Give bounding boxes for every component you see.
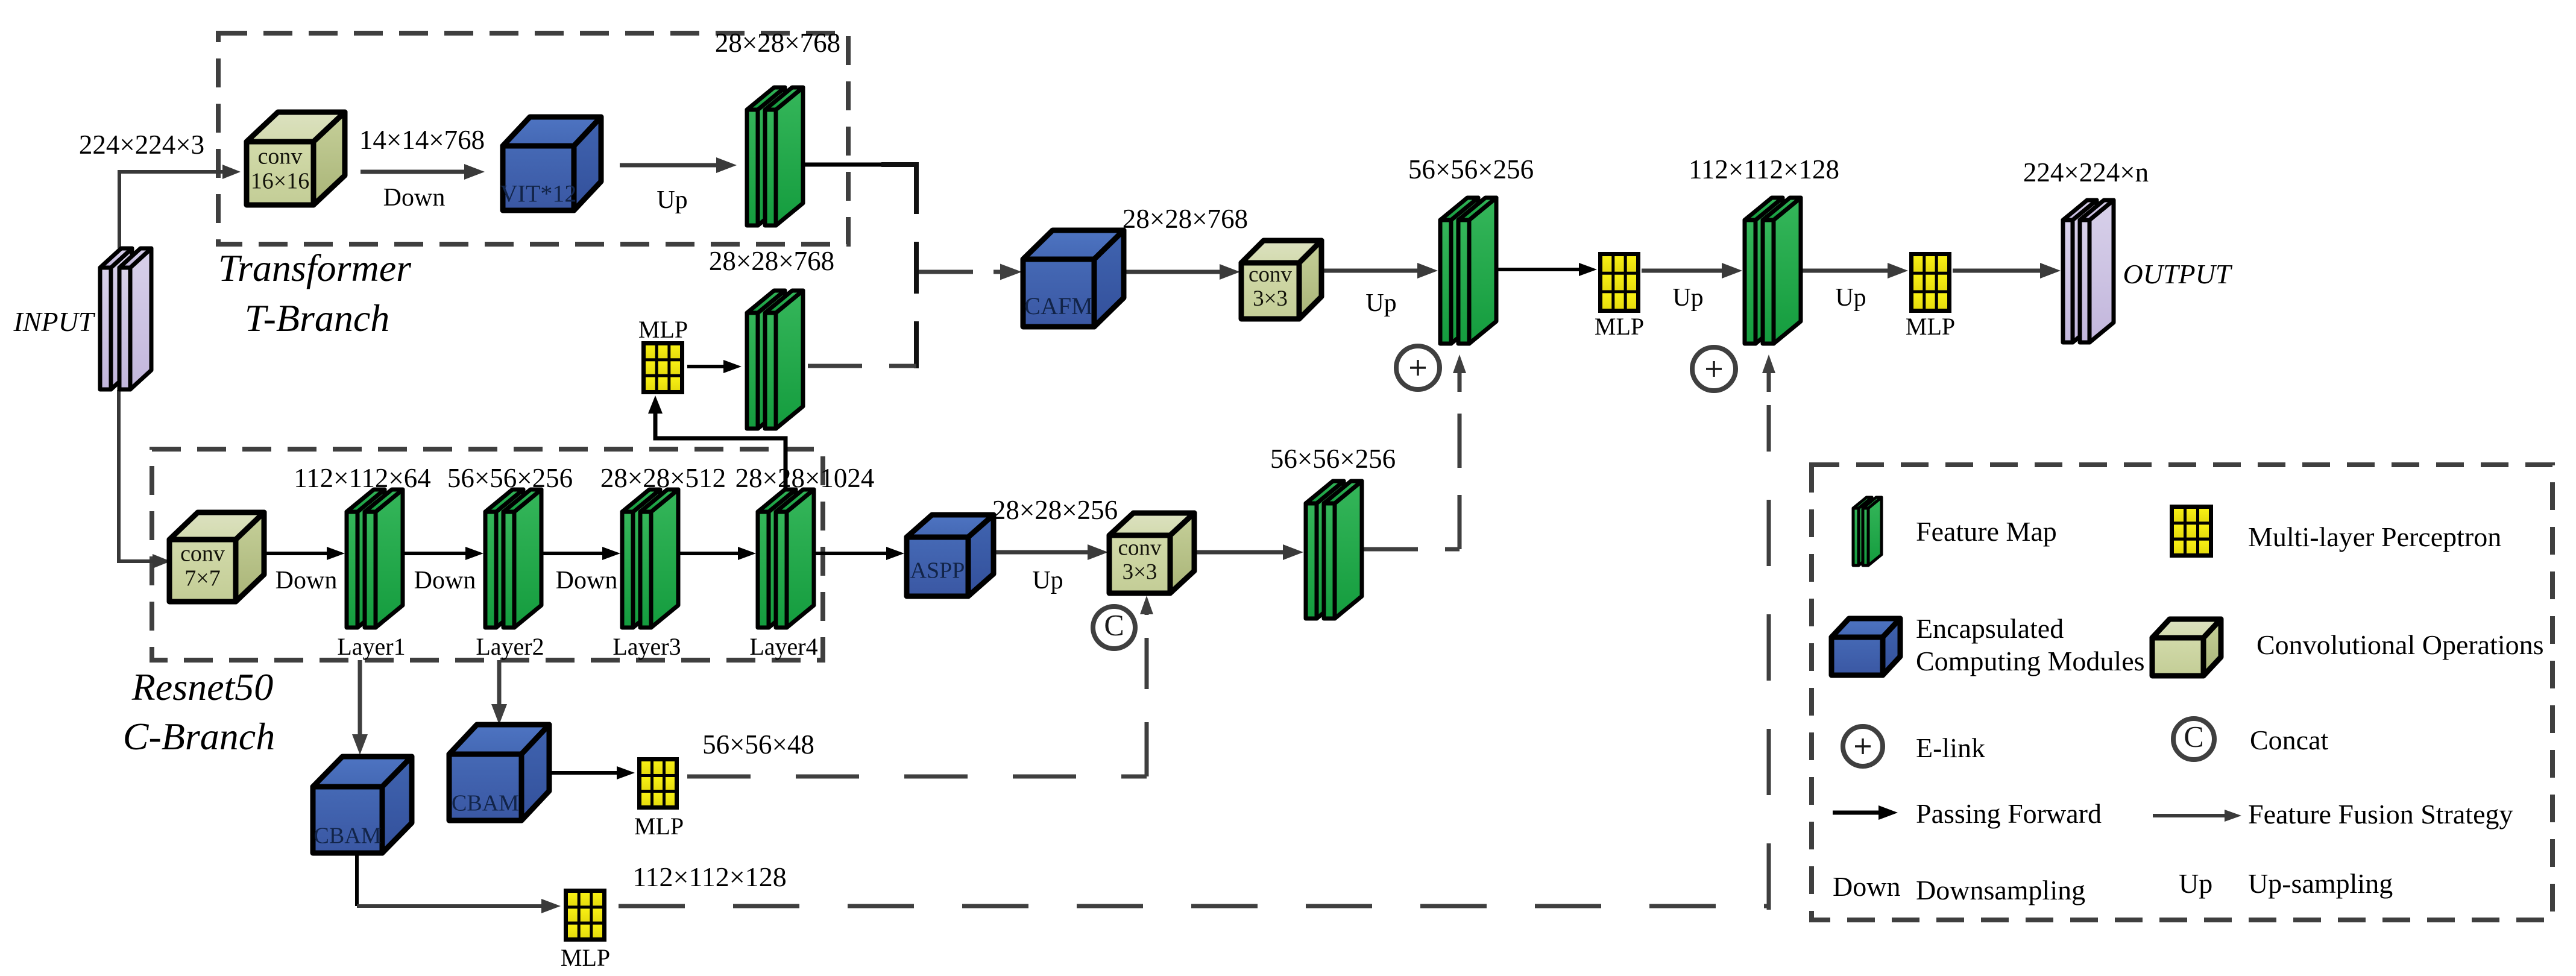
svg-text:14×14×768: 14×14×768: [359, 125, 485, 155]
svg-text:112×112×128: 112×112×128: [1689, 154, 1839, 184]
svg-text:Computing Modules: Computing Modules: [1916, 646, 2145, 676]
svg-text:28×28×256: 28×28×256: [992, 495, 1118, 525]
svg-text:VIT*12: VIT*12: [500, 180, 577, 207]
svg-text:Up: Up: [1835, 284, 1866, 312]
svg-text:Feature Fusion Strategy: Feature Fusion Strategy: [2248, 799, 2513, 830]
svg-text:Concat: Concat: [2250, 725, 2329, 755]
svg-text:conv: conv: [1249, 262, 1292, 287]
svg-text:Encapsulated: Encapsulated: [1916, 613, 2064, 644]
svg-text:56×56×256: 56×56×256: [447, 463, 573, 493]
svg-text:E-link: E-link: [1916, 732, 1985, 763]
svg-text:CAFM: CAFM: [1024, 292, 1092, 320]
svg-text:OUTPUT: OUTPUT: [2123, 259, 2233, 289]
svg-text:Passing Forward: Passing Forward: [1916, 798, 2102, 829]
svg-text:Resnet50: Resnet50: [131, 666, 274, 708]
svg-text:conv: conv: [258, 144, 303, 169]
svg-text:ASPP: ASPP: [910, 558, 965, 584]
svg-text:T-Branch: T-Branch: [245, 297, 390, 339]
svg-text:Layer1: Layer1: [337, 633, 405, 660]
svg-text:Multi-layer Perceptron: Multi-layer Perceptron: [2248, 521, 2501, 552]
svg-text:MLP: MLP: [1595, 313, 1644, 340]
svg-text:MLP: MLP: [561, 944, 610, 971]
svg-text:Downsampling: Downsampling: [1916, 875, 2085, 905]
svg-text:conv: conv: [180, 541, 225, 567]
svg-text:Feature Map: Feature Map: [1916, 516, 2057, 547]
svg-text:Down: Down: [414, 567, 476, 594]
svg-text:Down: Down: [556, 567, 618, 594]
svg-text:MLP: MLP: [1906, 313, 1955, 340]
svg-text:3×3: 3×3: [1253, 286, 1288, 311]
svg-text:C: C: [1104, 608, 1124, 641]
svg-text:MLP: MLP: [638, 316, 688, 343]
svg-text:Layer2: Layer2: [476, 633, 544, 660]
svg-text:MLP: MLP: [634, 813, 684, 840]
svg-text:Up-sampling: Up-sampling: [2248, 868, 2393, 899]
svg-text:28×28×768: 28×28×768: [715, 28, 840, 58]
svg-text:224×224×3: 224×224×3: [79, 130, 204, 160]
svg-text:CBAM: CBAM: [314, 823, 382, 849]
svg-text:CBAM: CBAM: [452, 791, 519, 816]
svg-text:Up: Up: [1032, 567, 1063, 594]
svg-text:Transformer: Transformer: [218, 247, 412, 289]
svg-text:28×28×768: 28×28×768: [709, 246, 834, 276]
svg-text:7×7: 7×7: [184, 566, 220, 591]
svg-text:Down: Down: [383, 184, 446, 212]
svg-text:Up: Up: [2179, 868, 2212, 899]
svg-text:Down: Down: [276, 567, 338, 594]
svg-text:Up: Up: [1672, 284, 1703, 312]
svg-text:Convolutional Operations: Convolutional Operations: [2256, 629, 2544, 660]
svg-text:Layer3: Layer3: [613, 633, 681, 660]
svg-text:56×56×48: 56×56×48: [702, 729, 814, 760]
svg-text:112×112×64: 112×112×64: [294, 463, 430, 493]
svg-text:28×28×768: 28×28×768: [1123, 204, 1248, 234]
svg-text:56×56×256: 56×56×256: [1408, 154, 1534, 184]
svg-text:56×56×256: 56×56×256: [1270, 444, 1396, 474]
svg-text:conv: conv: [1118, 536, 1162, 561]
svg-text:Down: Down: [1833, 871, 1900, 902]
svg-text:16×16: 16×16: [251, 169, 309, 194]
svg-text:C-Branch: C-Branch: [123, 715, 275, 758]
svg-text:112×112×128: 112×112×128: [632, 861, 786, 892]
svg-text:28×28×512: 28×28×512: [600, 463, 726, 493]
svg-text:Up: Up: [657, 186, 687, 214]
svg-text:Layer4: Layer4: [749, 633, 817, 660]
svg-text:224×224×n: 224×224×n: [2023, 157, 2149, 187]
svg-text:3×3: 3×3: [1123, 559, 1157, 584]
svg-text:Up: Up: [1365, 289, 1396, 317]
svg-text:INPUT: INPUT: [13, 306, 96, 337]
svg-text:28×28×1024: 28×28×1024: [735, 463, 875, 493]
svg-text:C: C: [2184, 719, 2203, 753]
